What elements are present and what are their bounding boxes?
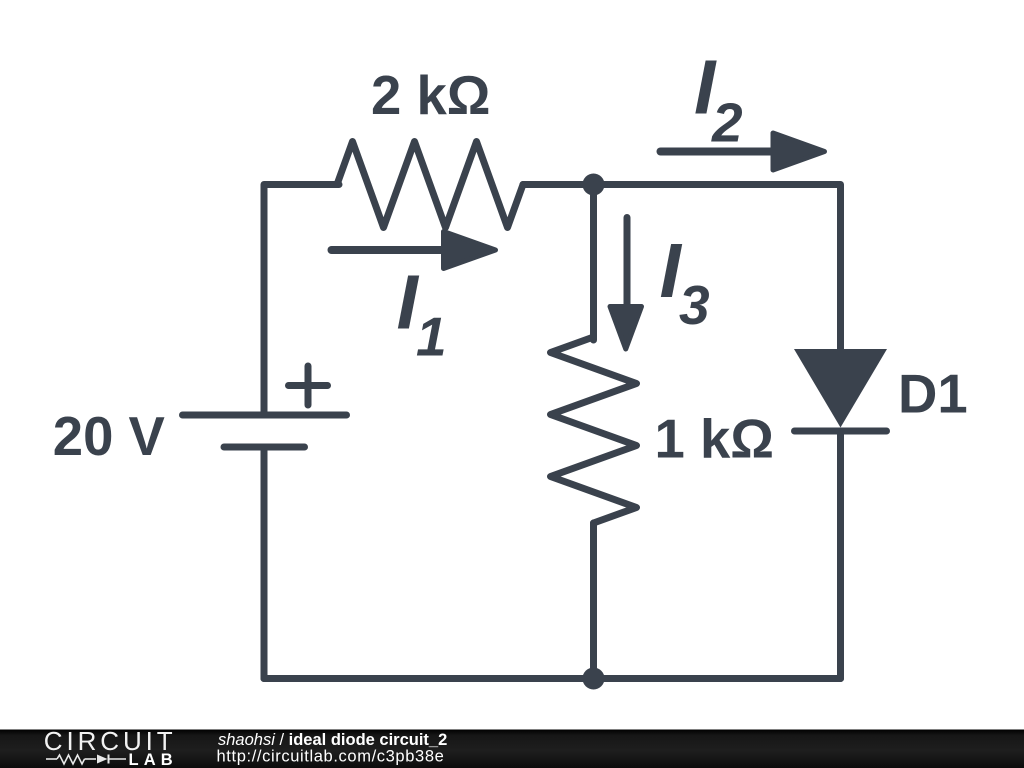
current arrow I3 shaft [624, 218, 631, 305]
svg-text:1 kΩ: 1 kΩ [655, 409, 774, 470]
wire middle branch (resistor R2 down to bottom node) [590, 523, 597, 679]
current arrow I3 head [610, 307, 642, 350]
wire bottom [264, 675, 841, 682]
footer logo squiggle wire 2 [85, 758, 97, 760]
svg-text:1: 1 [416, 306, 447, 368]
diode D1 cathode bar [795, 428, 887, 435]
footer logo squiggle wire 3 [109, 758, 127, 760]
node junction dot bottom [583, 668, 605, 690]
footer logo schematic squiggle wire [46, 758, 57, 760]
svg-text:2: 2 [711, 92, 743, 154]
node junction dot top [583, 174, 605, 196]
current arrow I2 shaft [661, 148, 775, 156]
wire left lower (battery negative down to bottom-left corner) [261, 447, 268, 679]
diode D1 triangle (anode) [794, 349, 887, 428]
current arrow I1 head [444, 232, 496, 269]
svg-text:LAB: LAB [129, 751, 173, 768]
svg-text:3: 3 [679, 274, 710, 336]
svg-text:D1: D1 [898, 363, 968, 424]
current arrow I2 head [773, 133, 825, 170]
wire left (top-left corner from battery positive up and right to resistor) [264, 185, 339, 416]
wire middle branch (top node down to resistor R2) [590, 185, 597, 341]
resistor R2 1 kOhm vertical zigzag [551, 337, 637, 523]
wire top (resistor R1 to node, node to top-right corner, down to diode anode) [523, 185, 841, 353]
footer logo squiggle diode [97, 755, 108, 764]
svg-text:shaohsi / ideal diode circuit_: shaohsi / ideal diode circuit_2 [218, 731, 447, 749]
footer logo squiggle resistor [57, 755, 85, 764]
footer logo squiggle diode bar [108, 755, 110, 764]
footer bar background [0, 730, 1024, 768]
battery V1 plus sign [289, 366, 328, 405]
battery V1 top plate (positive, long) [183, 412, 347, 419]
resistor R1 2 kOhm zigzag [337, 142, 523, 228]
current arrow I1 shaft [332, 246, 446, 254]
wire right lower (diode cathode down to bottom-right corner) [837, 431, 844, 679]
svg-text:20 V: 20 V [53, 406, 165, 467]
svg-text:2 kΩ: 2 kΩ [371, 65, 490, 126]
svg-text:http://circuitlab.com/c3pb38e: http://circuitlab.com/c3pb38e [217, 748, 444, 766]
battery V1 bottom plate (negative, short) [224, 444, 305, 451]
